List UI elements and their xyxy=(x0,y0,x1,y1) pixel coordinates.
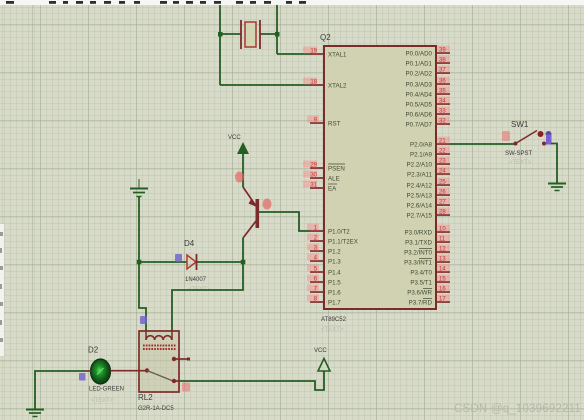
wire: crystal top-left vertical xyxy=(219,5,221,85)
wire: relay to VCC bottom xyxy=(179,371,324,390)
svg-text:ALE: ALE xyxy=(328,176,340,183)
svg-text:29: 29 xyxy=(310,163,317,169)
svg-text:P1.4: P1.4 xyxy=(328,270,341,277)
svg-text:P2.4/A12: P2.4/A12 xyxy=(407,183,433,190)
svg-text:G2R-1A-DC5: G2R-1A-DC5 xyxy=(138,406,174,412)
LED D2 xyxy=(88,346,124,405)
svg-text:30: 30 xyxy=(310,173,317,179)
svg-text:P0.1/AD1: P0.1/AD1 xyxy=(406,61,433,68)
switch SW1 xyxy=(505,120,552,166)
power VCC (transistor emitter supply) xyxy=(228,135,249,187)
pin: LED right to relay pivot xyxy=(110,370,147,372)
svg-text:17: 17 xyxy=(439,297,446,303)
svg-text:16: 16 xyxy=(439,287,446,293)
svg-text:P1.5: P1.5 xyxy=(328,280,341,287)
crystal X1 (quartz between XTAL1 and XTAL2) xyxy=(241,20,260,49)
svg-text:P0.3/AD3: P0.3/AD3 xyxy=(406,82,433,89)
svg-text:SW1: SW1 xyxy=(511,120,529,129)
node: crystal right junction xyxy=(275,32,280,37)
top cropped text strip xyxy=(0,0,584,5)
svg-text:21: 21 xyxy=(439,139,446,145)
svg-text:10: 10 xyxy=(439,227,446,233)
svg-text:P3.3/INT1: P3.3/INT1 xyxy=(404,260,432,267)
chip Q2 left pin stubs (pins 19,18,9,29,30,31,1-8) xyxy=(310,54,324,302)
svg-text:37: 37 xyxy=(439,68,446,74)
svg-text:25: 25 xyxy=(439,180,446,186)
svg-text:15: 15 xyxy=(439,277,446,283)
svg-text:P1.6: P1.6 xyxy=(328,290,341,297)
ground: right xyxy=(548,184,566,191)
svg-text:D2: D2 xyxy=(88,346,99,355)
wire: XTAL1 horizontal xyxy=(277,53,311,55)
node: diode right junction xyxy=(241,260,246,265)
svg-text:12: 12 xyxy=(439,247,446,253)
svg-text:34: 34 xyxy=(439,99,446,105)
svg-text:P3.4/T0: P3.4/T0 xyxy=(410,270,432,277)
chip Q2 left pin numbers xyxy=(303,47,319,303)
svg-text:23: 23 xyxy=(439,159,446,165)
node: diode left junction xyxy=(137,260,142,265)
marker: red square left of switch xyxy=(502,131,510,141)
svg-text:27: 27 xyxy=(439,200,446,206)
svg-text:<TEXT>: <TEXT> xyxy=(91,398,114,404)
svg-text:AT89C52: AT89C52 xyxy=(321,317,347,323)
svg-text:24: 24 xyxy=(439,169,446,175)
svg-text:P3.0/RXD: P3.0/RXD xyxy=(404,230,432,237)
svg-text:26: 26 xyxy=(439,190,446,196)
chip Q2 right pin stubs (pins 39-32,21-28,10-17) xyxy=(436,53,450,302)
svg-text:P0.7/AD7: P0.7/AD7 xyxy=(406,122,433,129)
svg-text:<TEXT>: <TEXT> xyxy=(321,327,344,333)
svg-text:P2.3/A11: P2.3/A11 xyxy=(407,172,433,179)
svg-text:14: 14 xyxy=(439,267,446,273)
wire: diode anode xyxy=(139,261,187,263)
ground: bottom-left xyxy=(26,410,44,417)
svg-text:VCC: VCC xyxy=(228,135,241,141)
svg-text:P3.7/RD: P3.7/RD xyxy=(409,300,433,307)
svg-text:1N4007: 1N4007 xyxy=(185,277,207,283)
svg-text:P0.6/AD6: P0.6/AD6 xyxy=(406,112,433,119)
svg-text:P0.0/AD0: P0.0/AD0 xyxy=(406,51,433,58)
svg-text:VCC: VCC xyxy=(314,348,327,354)
marker: blue square left of LED xyxy=(79,373,86,381)
wire: crystal top-right vertical xyxy=(276,5,278,54)
svg-text:39: 39 xyxy=(439,48,446,54)
svg-text:RST: RST xyxy=(328,121,341,128)
power VCC (relay contact supply) xyxy=(314,348,330,371)
svg-text:P2.6/A14: P2.6/A14 xyxy=(407,203,433,210)
svg-text:13: 13 xyxy=(439,257,446,263)
svg-text:P1.0/T2: P1.0/T2 xyxy=(328,229,350,236)
microcontroller Q2 AT89C52 xyxy=(320,33,436,333)
svg-text:P1.2: P1.2 xyxy=(328,249,341,256)
svg-text:P3.1/TXD: P3.1/TXD xyxy=(405,240,432,247)
transistor Q1 (PNP driver) xyxy=(243,187,257,238)
svg-text:11: 11 xyxy=(439,237,446,243)
diode D4 xyxy=(184,239,211,293)
svg-text:RL2: RL2 xyxy=(138,393,153,402)
marker: red square at relay output xyxy=(182,383,190,392)
wire: net to relay coil left xyxy=(139,262,146,331)
svg-text:XTAL2: XTAL2 xyxy=(328,83,347,90)
svg-text:P2.5/A13: P2.5/A13 xyxy=(407,193,433,200)
svg-text:P2.1/A9: P2.1/A9 xyxy=(410,152,433,159)
wire: P2.0 to switch xyxy=(450,143,515,145)
svg-text:22: 22 xyxy=(439,149,446,155)
svg-text:<TEXT>: <TEXT> xyxy=(509,160,532,166)
wire: net to relay coil right xyxy=(172,262,243,331)
svg-text:Q2: Q2 xyxy=(320,33,331,42)
wire: XTAL2 horizontal xyxy=(220,84,311,86)
relay RL2 xyxy=(138,331,190,412)
svg-text:P3.2/INT0: P3.2/INT0 xyxy=(404,250,432,257)
svg-text:P1.7: P1.7 xyxy=(328,300,341,307)
wire: diode cathode xyxy=(197,261,243,263)
marker: red square right of transistor xyxy=(263,199,272,210)
left edge white crop strip xyxy=(0,224,4,356)
pin: LED left stub xyxy=(85,370,91,372)
svg-text:32: 32 xyxy=(439,119,446,125)
svg-text:SW-SPST: SW-SPST xyxy=(505,151,533,157)
wire: crystal right lead xyxy=(260,33,277,35)
svg-text:PSEN: PSEN xyxy=(328,166,345,173)
svg-text:LED-GREEN: LED-GREEN xyxy=(89,387,124,393)
svg-text:EA: EA xyxy=(328,186,337,193)
svg-text:P1.3: P1.3 xyxy=(328,259,341,266)
wire: transistor base to P1.0 xyxy=(259,212,310,231)
svg-text:P2.2/A10: P2.2/A10 xyxy=(407,162,433,169)
svg-text:31: 31 xyxy=(310,183,317,189)
svg-text:33: 33 xyxy=(439,109,446,115)
svg-text:P3.6/WR: P3.6/WR xyxy=(407,290,432,297)
chip Q2 right pin name labels xyxy=(404,51,432,307)
wire: switch to ground right xyxy=(551,144,557,184)
node: crystal left junction xyxy=(218,32,223,37)
svg-text:18: 18 xyxy=(310,80,317,86)
wire: crystal left lead xyxy=(220,33,241,35)
wire: ground stem down to diode net xyxy=(138,197,140,262)
svg-text:P2.7/A15: P2.7/A15 xyxy=(407,213,433,220)
svg-text:35: 35 xyxy=(439,89,446,95)
svg-text:XTAL1: XTAL1 xyxy=(328,52,347,59)
svg-text:P3.5/T1: P3.5/T1 xyxy=(410,280,432,287)
ground: top-left xyxy=(130,179,148,197)
chip Q2 right pin numbers xyxy=(437,46,450,303)
marker: blue square on relay left wire xyxy=(140,316,147,324)
svg-text:P2.0/A8: P2.0/A8 xyxy=(410,142,433,149)
svg-text:28: 28 xyxy=(439,210,446,216)
svg-text:P0.4/AD4: P0.4/AD4 xyxy=(406,92,433,99)
svg-text:CSDN @q_1039692211: CSDN @q_1039692211 xyxy=(454,403,581,415)
marker: blue square left of diode xyxy=(175,254,182,262)
wire: LED to ground bottom-left xyxy=(35,371,85,409)
svg-text:19: 19 xyxy=(310,49,317,55)
svg-text:P1.1/T2EX: P1.1/T2EX xyxy=(328,239,358,246)
svg-text:36: 36 xyxy=(439,79,446,85)
svg-text:P0.5/AD5: P0.5/AD5 xyxy=(406,102,433,109)
chip Q2 left pin name labels xyxy=(328,52,358,307)
svg-text:P0.2/AD2: P0.2/AD2 xyxy=(406,71,433,78)
svg-text:38: 38 xyxy=(439,58,446,64)
marker: red square on emitter xyxy=(235,172,244,183)
svg-text:D4: D4 xyxy=(184,239,195,248)
wire: collector down to diode net xyxy=(242,238,244,262)
